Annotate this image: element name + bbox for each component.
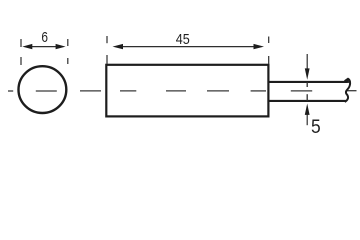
centerline dash inside circle (36, 90, 57, 92)
cable top line (269, 81, 348, 83)
axis centerline dashes (80, 90, 357, 92)
dimension 5 bottom arrow (305, 94, 310, 125)
dimension 6 right extension line (67, 39, 69, 64)
dimension 6 left extension line (20, 39, 22, 65)
circle front view of cylinder (19, 66, 67, 113)
rectangle side view of cylinder body (106, 65, 268, 117)
cable bottom line (269, 100, 346, 102)
centerline dash left of circle (8, 90, 13, 92)
dimension 45 right extension line (268, 37, 270, 65)
svg-text:5: 5 (311, 117, 321, 138)
dimension 5 top arrow (305, 54, 310, 87)
dimension 6 line with arrows (22, 44, 65, 49)
svg-text:6: 6 (41, 29, 48, 46)
cable break squiggle (345, 79, 351, 102)
svg-text:45: 45 (176, 31, 190, 48)
dimension 45 left extension line (106, 36, 108, 64)
dimension 45 line with arrows (113, 44, 265, 49)
